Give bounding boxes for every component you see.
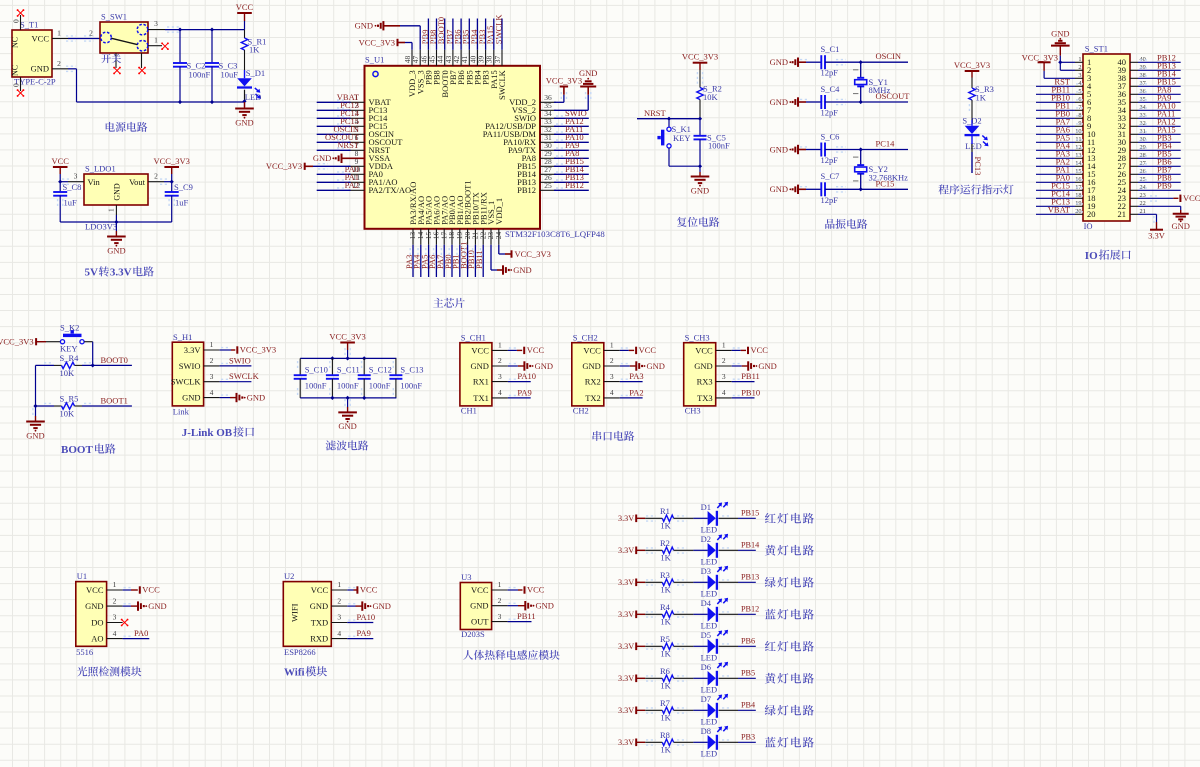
connector S_CH1 body — [460, 332, 508, 415]
svg-text:SWCLK: SWCLK — [171, 377, 202, 387]
no-connect X on S_SW1 bottom pin 2 — [139, 68, 145, 74]
junction filter bottom at center — [346, 396, 350, 400]
svg-text:5V: 5V — [85, 267, 99, 279]
LED D3 — [701, 566, 729, 599]
svg-text:CH1: CH1 — [461, 405, 477, 415]
wire and net label PB6 (LED row) — [719, 637, 756, 647]
wire and net label PB8 at S_ST1 pin 25 — [1138, 173, 1181, 183]
svg-text:LED: LED — [701, 524, 718, 534]
svg-text:S_LDO1: S_LDO1 — [85, 164, 116, 174]
capacitor S_C4 12pF — [800, 84, 908, 118]
wire and net label OSCOUT at MCU pin 6 — [317, 132, 360, 142]
wire to LED D6 — [693, 677, 707, 679]
svg-text:20: 20 — [1087, 209, 1096, 219]
resistor S_R4 10K — [54, 353, 82, 378]
svg-text:BOOT: BOOT — [61, 444, 93, 456]
svg-text:D3: D3 — [701, 566, 711, 576]
svg-text:4: 4 — [498, 388, 502, 397]
svg-text:1: 1 — [113, 580, 117, 589]
section title BOOT电路 — [61, 444, 116, 456]
svg-text:3: 3 — [154, 19, 158, 28]
junction at S_C3 bottom — [210, 100, 214, 104]
wire and net label PA9 (U2 pin4) — [347, 628, 373, 638]
svg-text:LED: LED — [701, 684, 718, 694]
svg-text:4: 4 — [113, 629, 117, 638]
wire and net label PC15 at S_ST1 pin 17 — [1036, 181, 1083, 191]
section title 黄灯电路 (row 6) — [765, 673, 776, 684]
svg-text:VCC: VCC — [51, 156, 69, 166]
wire to LED D2 — [693, 549, 707, 551]
wire and net label PA15 at MCU top pin 38 — [485, 19, 495, 50]
section title 蓝灯电路 (row 8) — [765, 737, 776, 747]
wire and net label PB7 at MCU top pin 43 — [444, 19, 454, 50]
svg-text:GND: GND — [1051, 28, 1069, 38]
svg-text:PB5: PB5 — [741, 669, 755, 678]
wire to LED D7 — [693, 709, 707, 711]
svg-text:LED: LED — [245, 92, 262, 102]
svg-text:D4: D4 — [701, 598, 712, 608]
power port VCC_3V3 (J-Link pin1) — [220, 345, 277, 355]
junction NRST at S_R2 bottom — [698, 117, 702, 121]
svg-text:VCC_3V3: VCC_3V3 — [359, 37, 395, 47]
resistor R2 1K — [645, 538, 693, 563]
svg-text:SWCLK: SWCLK — [493, 14, 503, 45]
resistor R3 1K — [645, 570, 693, 595]
svg-text:3: 3 — [498, 612, 502, 621]
svg-text:R7: R7 — [660, 698, 670, 708]
wire and net label OSCIN at MCU pin 5 — [317, 124, 359, 134]
svg-text:GND: GND — [107, 245, 125, 255]
svg-text:GND: GND — [313, 153, 331, 163]
crystal S_Y2 32.768KHz — [853, 150, 908, 190]
svg-text:GND: GND — [582, 361, 600, 371]
junction filter top at S_C12 — [362, 356, 366, 360]
wire and net label PB4 at MCU top pin 40 — [469, 19, 479, 50]
svg-text:S_D1: S_D1 — [246, 68, 265, 78]
section title 黄灯电路 (row 2) — [765, 545, 776, 556]
ground GND (U2 pin2) — [347, 601, 391, 611]
svg-text:VCC: VCC — [236, 2, 254, 12]
svg-text:BOOT1: BOOT1 — [101, 396, 128, 406]
no-connect X on S_T1 pin 0 top — [18, 10, 24, 16]
wire and net label PA9 (S_CH1 pin4) — [508, 388, 532, 398]
wire and net label PB6 at S_ST1 pin 27 — [1138, 157, 1181, 167]
svg-text:2: 2 — [210, 356, 214, 365]
wire BOOT1 net — [36, 396, 132, 406]
svg-text:PB10: PB10 — [741, 388, 760, 398]
svg-text:VCC_3V3: VCC_3V3 — [240, 345, 276, 355]
junction LDO pin1 to ground bus — [114, 215, 118, 224]
svg-text:2: 2 — [154, 172, 158, 181]
svg-text:2: 2 — [89, 29, 93, 38]
svg-text:LED: LED — [701, 652, 718, 662]
svg-text:1K: 1K — [976, 92, 987, 102]
wire and net label PB1 at MCU bottom pin 19 — [451, 245, 461, 277]
svg-text:D5: D5 — [701, 630, 711, 640]
svg-text:1: 1 — [498, 580, 502, 589]
capacitor S_C8 1uF — [53, 182, 81, 222]
svg-text:5516: 5516 — [76, 647, 93, 657]
power port VCC_3V3 (reset) — [682, 52, 718, 88]
wire and net label PB3 at S_ST1 pin 30 — [1138, 133, 1181, 143]
wire and net label PB14 (LED row) — [719, 541, 760, 551]
svg-text:BOOT0: BOOT0 — [101, 355, 128, 365]
section title 主芯片 — [433, 298, 443, 307]
wire and net label PB14 at MCU pin 27 — [554, 164, 589, 174]
svg-text:PC14: PC14 — [876, 139, 896, 149]
svg-text:GND: GND — [513, 265, 531, 275]
svg-text:PB11: PB11 — [741, 371, 760, 381]
wire to LED D3 — [693, 581, 707, 583]
section title 程序运行指示灯 — [938, 184, 948, 194]
ground GND (S_CH1 pin2) — [508, 361, 553, 371]
wire and net label VBAT at MCU pin 1 — [317, 92, 360, 102]
wire and net label PB3 (LED row) — [719, 733, 756, 743]
wire and net label PA2 at S_ST1 pin 14 — [1036, 157, 1083, 167]
power port VCC_3V3 (BOOT) — [0, 337, 60, 347]
wire and net label PC13 at MCU pin 2 — [317, 100, 359, 110]
wire and net label VBAT at S_ST1 pin 20 — [1036, 205, 1083, 215]
ground GND (filter) — [338, 398, 357, 431]
junction filter bottom at S_C11 — [330, 396, 334, 400]
connector S_H1 body — [171, 332, 220, 417]
wire and net label PC15 at MCU pin 4 — [317, 116, 359, 126]
wire PC13 net from S_D2 — [972, 136, 983, 176]
section title 绿灯电路 (row 3) — [765, 577, 776, 588]
svg-text:S_C6: S_C6 — [821, 131, 840, 141]
svg-text:IO: IO — [1084, 221, 1093, 231]
wire and net label PC14 at MCU pin 3 — [317, 108, 360, 118]
wire and net label PB13 at S_ST1 pin 39 — [1138, 61, 1181, 71]
ground GND (BOOT) — [26, 406, 45, 440]
svg-text:TX2: TX2 — [585, 393, 601, 403]
svg-text:4: 4 — [722, 388, 726, 397]
svg-text:3: 3 — [74, 172, 78, 181]
resistor S_R1 1K — [241, 30, 266, 70]
svg-text:GND: GND — [470, 361, 488, 371]
svg-text:AO: AO — [91, 634, 103, 644]
wire and net label PA10 at MCU pin 31 — [554, 132, 589, 142]
resistor R1 1K — [645, 506, 693, 531]
svg-text:GND: GND — [758, 361, 776, 371]
wire and net label PB15 (LED row) — [719, 509, 760, 519]
svg-text:100nF: 100nF — [305, 381, 327, 391]
svg-text:LDO3V3: LDO3V3 — [85, 222, 117, 232]
wire GND bottom bus power circuit — [66, 66, 245, 107]
svg-text:WIFI: WIFI — [290, 603, 300, 622]
svg-text:VCC: VCC — [527, 345, 545, 355]
svg-text:8MHz: 8MHz — [869, 85, 891, 95]
svg-text:PB4: PB4 — [741, 701, 755, 710]
capacitor S_C6 12pF — [800, 131, 908, 165]
ground GND (S_CH3 pin2) — [732, 361, 777, 371]
svg-text:100nF: 100nF — [369, 381, 391, 391]
capacitor S_C10 100nF — [294, 358, 328, 398]
svg-text:PB12: PB12 — [517, 185, 536, 195]
svg-text:12pF: 12pF — [821, 68, 839, 78]
wire and net label PB15 at MCU pin 28 — [554, 156, 589, 166]
svg-text:10K: 10K — [60, 409, 76, 419]
power port VCC (IO pin23) — [1138, 193, 1200, 203]
LED D6 — [701, 662, 729, 695]
svg-text:GND: GND — [26, 430, 44, 440]
wire Vout to VCC_3V3 — [160, 179, 172, 184]
svg-text:S_CH3: S_CH3 — [685, 332, 710, 342]
power port VCC (LDO input) — [51, 156, 69, 182]
svg-text:1K: 1K — [660, 649, 671, 659]
svg-text:VCC_3V3: VCC_3V3 — [0, 337, 34, 347]
svg-text:VCC: VCC — [142, 585, 160, 595]
junction at reset ground node — [698, 164, 702, 168]
wire and net label PA11 at MCU pin 32 — [554, 124, 589, 134]
svg-text:2: 2 — [610, 356, 614, 365]
resistor R6 1K — [645, 666, 693, 691]
svg-text:37: 37 — [493, 55, 502, 63]
section title J-Link OB接口 — [182, 426, 254, 438]
svg-text:DO: DO — [91, 617, 103, 627]
wire S_T1 VCC to switch pin 2 — [66, 29, 100, 42]
LED D2 — [701, 534, 729, 567]
wire and net label PA6 at S_ST1 pin 10 — [1036, 125, 1083, 135]
svg-text:RX1: RX1 — [473, 377, 489, 387]
svg-text:VCC_3V3: VCC_3V3 — [1022, 53, 1058, 63]
power port 3.3V (LED row D5) — [618, 642, 645, 651]
MCU right pins 36-25 stubs and names — [483, 93, 556, 195]
section title 人体热释电感应模块 — [463, 650, 473, 660]
wire and net label PA0 (U1 pin4) — [123, 628, 150, 638]
section title IO拓展口 — [1085, 250, 1131, 262]
svg-text:3: 3 — [113, 613, 117, 622]
junction filter top at S_C11 — [330, 356, 334, 360]
svg-text:S_K2: S_K2 — [60, 323, 79, 333]
svg-text:PB11: PB11 — [517, 611, 536, 621]
wire and net label PC13 at S_ST1 pin 19 — [1036, 197, 1083, 207]
wire and net label PB12 at S_ST1 pin 40 — [1138, 53, 1181, 63]
svg-text:U3: U3 — [461, 572, 471, 582]
ground GND (S_CH2 pin2) — [620, 361, 665, 371]
wire and net label PB4 (LED row) — [719, 701, 756, 711]
module U3 body (PIR sensor) — [460, 572, 507, 639]
svg-text:10uF: 10uF — [221, 70, 239, 80]
LED D8 — [701, 726, 729, 759]
resistor R5 1K — [645, 634, 693, 659]
svg-text:J-Link OB: J-Link OB — [182, 427, 233, 439]
junction crystal top row S_C6 — [859, 147, 863, 151]
svg-text:LED: LED — [701, 748, 718, 758]
wire and net label PB5 at MCU top pin 41 — [461, 19, 471, 50]
wire to LED D4 — [693, 613, 707, 615]
LED D7 — [701, 694, 729, 727]
svg-text:U1: U1 — [77, 571, 87, 581]
power port 3.3V (LED row D3) — [618, 578, 645, 587]
wire and net label PA1 at MCU pin 11 — [317, 172, 359, 182]
ground GND (crystal row S_C1) — [770, 57, 806, 67]
resistor S_R3 1K — [969, 84, 994, 120]
wire and net label PB11 at S_ST1 pin 5 — [1036, 85, 1083, 95]
power port 3.3V (LED row D7) — [618, 706, 645, 715]
svg-text:PA2: PA2 — [629, 388, 643, 398]
wire and net label PA1 at S_ST1 pin 15 — [1036, 165, 1083, 175]
wire and net label PB0 at MCU bottom pin 18 — [443, 245, 453, 277]
svg-text:PA10: PA10 — [357, 612, 376, 622]
wire and net label PB9 at MCU top pin 46 — [420, 19, 430, 50]
no-connect X on S_SW1 bottom pin — [114, 68, 120, 74]
svg-text:R6: R6 — [660, 666, 670, 676]
svg-text:GND: GND — [247, 392, 265, 402]
svg-text:S_U1: S_U1 — [365, 55, 384, 65]
wire and net label PB1 at S_ST1 pin 7 — [1036, 101, 1083, 111]
svg-text:R2: R2 — [660, 538, 670, 548]
svg-text:VDD_1: VDD_1 — [494, 198, 504, 225]
svg-text:1: 1 — [610, 341, 614, 350]
svg-text:0: 0 — [12, 19, 21, 23]
power port VCC_3V3 at MCU pin 9 VDDA — [266, 161, 351, 171]
svg-text:1K: 1K — [660, 553, 671, 563]
svg-text:SWCLK: SWCLK — [229, 371, 260, 381]
svg-text:NRST: NRST — [644, 108, 667, 118]
wire and net label PA9 at MCU pin 30 — [554, 140, 589, 150]
svg-text:STM32F103C8T6_LQFP48: STM32F103C8T6_LQFP48 — [505, 229, 605, 239]
connector S_T1 TYPE-C-2P — [11, 15, 69, 91]
svg-text:1: 1 — [337, 580, 341, 589]
power port 3.3V (LED row D6) — [618, 674, 645, 683]
wire and net label RST at S_ST1 pin 4 — [1036, 77, 1083, 87]
capacitor S_C12 100nF — [358, 358, 392, 398]
svg-text:ESP8266: ESP8266 — [284, 647, 316, 657]
svg-text:4: 4 — [210, 388, 214, 397]
svg-text:OUT: OUT — [471, 617, 489, 627]
wire and net label PA3 (S_CH2 pin3) — [620, 371, 644, 381]
svg-text:SWIO: SWIO — [179, 361, 201, 371]
svg-text:S_H1: S_H1 — [173, 332, 192, 342]
svg-text:R8: R8 — [660, 730, 670, 740]
svg-text:1uF: 1uF — [175, 198, 189, 208]
wire and net label PB15 at S_ST1 pin 37 — [1138, 77, 1181, 87]
svg-text:PA3: PA3 — [629, 371, 643, 381]
svg-text:PA2: PA2 — [345, 180, 359, 190]
no-connect X on S_SW1 pin 1 — [162, 43, 168, 49]
svg-text:SWCLK: SWCLK — [497, 69, 507, 100]
svg-text:3: 3 — [210, 372, 214, 381]
wire and net label PA7 at MCU bottom pin 17 — [435, 245, 445, 277]
wire and net label PB4 at S_ST1 pin 29 — [1138, 141, 1181, 151]
power port 3.3V (LED row D8) — [618, 738, 645, 747]
svg-text:S_CH1: S_CH1 — [461, 332, 486, 342]
resistor R7 1K — [645, 698, 693, 723]
svg-text:S_C9: S_C9 — [174, 182, 193, 192]
LED S_D2 — [962, 116, 988, 151]
wire to LED D1 — [693, 517, 707, 519]
junction crystal bottom row S_C4 — [859, 100, 863, 104]
wire and net label PA8 at S_ST1 pin 36 — [1138, 85, 1181, 95]
svg-text:S_C4: S_C4 — [821, 84, 841, 94]
ground GND (crystal row S_C6) — [770, 144, 806, 154]
svg-text:D7: D7 — [701, 694, 711, 704]
wire key to BOOT0 — [92, 342, 94, 366]
svg-text:2: 2 — [722, 356, 726, 365]
svg-text:NC: NC — [11, 65, 20, 76]
svg-text:LED: LED — [701, 716, 718, 726]
svg-text:GND: GND — [85, 601, 103, 611]
section title 光照检测模块 — [77, 666, 87, 676]
svg-text:IO: IO — [1085, 250, 1098, 262]
switch label 开关 — [101, 54, 111, 63]
ground GND (LDO) — [107, 222, 126, 255]
svg-text:R1: R1 — [660, 506, 670, 516]
svg-text:S_C10: S_C10 — [305, 364, 328, 374]
svg-text:PB6: PB6 — [741, 637, 755, 646]
wire and net label PA5 at S_ST1 pin 11 — [1036, 133, 1083, 143]
svg-text:1K: 1K — [660, 713, 671, 723]
LED D4 — [701, 598, 729, 631]
wire and net label PA3 at MCU bottom pin 13 — [404, 245, 414, 277]
svg-text:GND: GND — [235, 117, 253, 127]
svg-text:3.3V: 3.3V — [618, 706, 634, 715]
svg-text:VCC_3V3: VCC_3V3 — [515, 249, 551, 259]
svg-text:GND: GND — [536, 601, 554, 611]
wire and net label BOOT0 at MCU top pin 44 — [436, 17, 446, 50]
wire and net label PB11 (U3 pin3) — [508, 611, 536, 621]
svg-text:VBAT: VBAT — [1048, 205, 1071, 215]
wire and net label PB11 at MCU bottom pin 22 — [474, 245, 484, 277]
svg-text:Vout: Vout — [129, 177, 146, 187]
svg-text:VCC: VCC — [471, 585, 489, 595]
svg-text:1K: 1K — [660, 521, 671, 531]
wire and net label PB8 at MCU top pin 45 — [428, 19, 438, 50]
wire and net label PB5 (LED row) — [719, 669, 756, 679]
svg-text:1: 1 — [210, 340, 214, 349]
svg-text:4: 4 — [610, 388, 614, 397]
ground GND (crystal row S_C7) — [770, 184, 806, 194]
svg-text:LED: LED — [701, 588, 718, 598]
section title 晶振电路 — [825, 219, 834, 229]
svg-text:GND: GND — [770, 97, 788, 107]
svg-text:PA0: PA0 — [134, 628, 148, 638]
wire and net label PB13 (LED row) — [719, 573, 760, 583]
power port VCC_3V3 at MCU pin 36 VDD_2 — [546, 76, 582, 103]
svg-text:1uF: 1uF — [64, 198, 78, 208]
svg-text:12pF: 12pF — [821, 108, 839, 118]
section title 复位电路 — [677, 217, 687, 227]
svg-text:1K: 1K — [660, 617, 671, 627]
power port 3.3V (LED row D2) — [618, 546, 645, 555]
LED S_D1 — [237, 68, 265, 103]
wire LDO ground bus — [60, 221, 172, 223]
resistor S_R5 10K — [54, 394, 82, 419]
power port VCC (S_CH3 pin1) — [732, 345, 769, 355]
svg-text:GND: GND — [770, 184, 788, 194]
section title 红灯电路 (row 5) — [765, 641, 776, 651]
power port VCC (S_CH1 pin1) — [508, 345, 545, 355]
wire NRST net — [637, 108, 700, 119]
wire and net label PB6 at MCU top pin 42 — [453, 19, 463, 50]
svg-text:S_C7: S_C7 — [821, 171, 840, 181]
svg-text:OSCIN: OSCIN — [876, 51, 902, 61]
svg-text:3.3V: 3.3V — [618, 642, 634, 651]
svg-text:GND: GND — [31, 64, 49, 74]
crystal S_Y1 8MHz — [853, 62, 890, 102]
wire and net label PA15 at S_ST1 pin 31 — [1138, 125, 1181, 135]
ground GND (reset) — [691, 166, 710, 195]
LED D5 — [701, 630, 729, 663]
svg-text:S_D2: S_D2 — [962, 116, 981, 126]
svg-text:D8: D8 — [701, 726, 711, 736]
svg-text:Vin: Vin — [88, 177, 101, 187]
svg-text:VCC: VCC — [639, 345, 657, 355]
svg-text:GND: GND — [1171, 221, 1189, 231]
power port VCC_3V3 (LDO output) — [154, 156, 190, 182]
svg-text:D203S: D203S — [461, 629, 485, 639]
